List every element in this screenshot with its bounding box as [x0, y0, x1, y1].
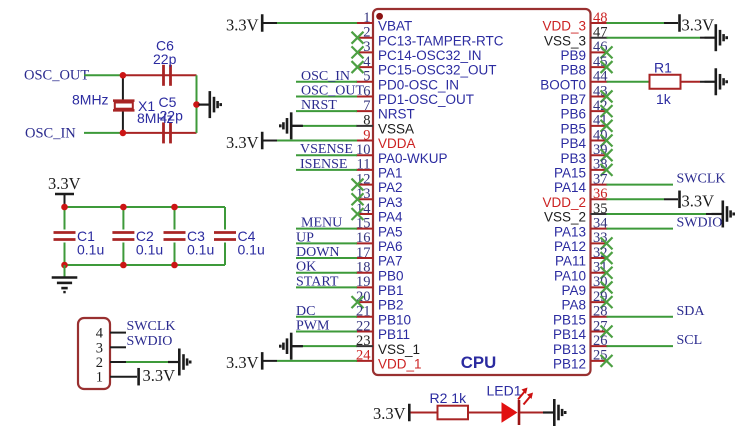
svg-text:1k: 1k	[656, 91, 672, 107]
wire pin 21 net DC	[296, 316, 357, 318]
wire R2 to LED1	[468, 412, 502, 414]
svg-text:VDD_1: VDD_1	[378, 356, 422, 371]
svg-text:22p: 22p	[153, 51, 177, 67]
pin 7 NRST (left)	[356, 98, 415, 122]
pin 20 PB2 (left)	[356, 289, 404, 313]
no-connect pin 43	[601, 90, 613, 102]
svg-text:NRST: NRST	[378, 107, 415, 122]
svg-text:3: 3	[96, 340, 103, 356]
pin 22 PB11 (left)	[356, 318, 410, 342]
svg-text:3.3V: 3.3V	[682, 192, 715, 211]
svg-text:PB12: PB12	[553, 356, 586, 371]
svg-text:PB10: PB10	[378, 312, 411, 327]
pin 30 PA9 (right)	[561, 274, 607, 298]
svg-text:19: 19	[356, 274, 371, 290]
CPU U1 body	[373, 9, 591, 375]
power 3.3V (LED)	[373, 404, 409, 423]
svg-text:11: 11	[357, 157, 371, 173]
junction crystal top	[120, 72, 127, 79]
pin 28 PB15 (right)	[553, 304, 608, 328]
pin 6 PD1-OSC_OUT (left)	[356, 83, 474, 107]
svg-text:24: 24	[356, 348, 371, 364]
svg-text:PA3: PA3	[378, 195, 403, 210]
pin 38 PA15 (right)	[554, 157, 608, 181]
svg-text:4: 4	[96, 326, 104, 342]
svg-text:DOWN: DOWN	[296, 245, 340, 260]
svg-text:PC15-OSC32_OUT: PC15-OSC32_OUT	[378, 63, 497, 78]
wire pin 19 net START	[296, 286, 357, 288]
wire pin 36 to 3.3V	[607, 198, 679, 200]
svg-text:1: 1	[363, 10, 370, 26]
wire cap bank top rail	[65, 206, 226, 208]
svg-text:VDDA: VDDA	[378, 136, 416, 151]
pin 1 marker dot	[376, 13, 383, 20]
wire cap bank bottom rail	[65, 264, 226, 266]
pin 17 PA7 (left)	[356, 245, 403, 269]
wire pin 16 net UP	[296, 242, 357, 244]
svg-text:PWM: PWM	[296, 318, 330, 333]
wire pin 26 net SCL	[607, 345, 674, 347]
wire OSC_IN	[84, 132, 123, 134]
svg-text:PD0-OSC_IN: PD0-OSC_IN	[378, 77, 459, 92]
svg-text:SWCLK: SWCLK	[127, 319, 176, 334]
wire pin 18 net OK	[296, 272, 357, 274]
svg-text:PA9: PA9	[561, 283, 586, 298]
pin 21 PB10 (left)	[356, 304, 411, 328]
svg-text:26: 26	[593, 333, 608, 349]
wire pin 11 net ISENSE	[296, 169, 357, 171]
svg-text:VDD_3: VDD_3	[542, 19, 586, 34]
pin 5 PD0-OSC_IN (left)	[356, 69, 459, 93]
svg-text:START: START	[296, 274, 339, 289]
wire 3.3V to R2	[411, 412, 438, 414]
wire pin 23 to GND	[292, 345, 357, 347]
no-connect pin 12	[352, 179, 364, 191]
svg-text:2: 2	[363, 24, 370, 40]
capacitor C4	[214, 207, 265, 265]
ground (pin 23)	[280, 333, 302, 360]
ground (R1)	[705, 68, 727, 95]
svg-text:PC13-TAMPER-RTC: PC13-TAMPER-RTC	[378, 33, 504, 48]
wire pin 37 net SWCLK	[607, 184, 674, 186]
svg-text:VSENSE: VSENSE	[300, 142, 353, 157]
junction bottom C1	[61, 262, 68, 269]
svg-text:SDA: SDA	[677, 304, 706, 319]
connector pin 1	[96, 370, 137, 386]
svg-text:16: 16	[356, 230, 371, 246]
no-connect pin 27	[601, 325, 613, 337]
pin 9 VDDA (left)	[356, 127, 416, 151]
svg-text:PB11: PB11	[378, 327, 410, 342]
junction right rail	[193, 101, 200, 108]
LED D1	[487, 383, 522, 426]
svg-text:3.3V: 3.3V	[226, 15, 259, 34]
svg-text:VSS_1: VSS_1	[378, 342, 420, 357]
pin 29 PA8 (right)	[561, 289, 607, 313]
svg-text:VDD_2: VDD_2	[542, 195, 586, 210]
ground (pin 47)	[705, 24, 727, 51]
no-connect pin 31	[601, 267, 613, 279]
svg-text:22: 22	[356, 318, 371, 334]
pin 46 PB9 (right)	[560, 39, 607, 63]
svg-text:R1: R1	[654, 59, 672, 75]
capacitor C5	[159, 94, 184, 143]
pin 8 VSSA (left)	[356, 113, 414, 137]
ground (connector)	[168, 349, 190, 376]
svg-text:BOOT0: BOOT0	[540, 77, 586, 92]
svg-text:18: 18	[356, 260, 371, 276]
pin 27 PB14 (right)	[553, 318, 608, 342]
pin 45 PB8 (right)	[560, 54, 607, 78]
svg-text:PC14-OSC32_IN: PC14-OSC32_IN	[378, 48, 482, 63]
no-connect pin 33	[601, 237, 613, 249]
pin 43 PB7 (right)	[560, 83, 607, 107]
svg-text:PB7: PB7	[560, 92, 586, 107]
power 3.3V (pin 1)	[226, 14, 262, 34]
svg-text:PA2: PA2	[378, 180, 403, 195]
pin 13 PA3 (left)	[356, 186, 403, 210]
svg-text:44: 44	[593, 69, 608, 85]
svg-text:3.3V: 3.3V	[682, 15, 715, 34]
svg-text:3: 3	[363, 39, 370, 55]
svg-text:0.1u: 0.1u	[136, 242, 163, 258]
svg-text:VBAT: VBAT	[378, 19, 412, 34]
junction bottom C2	[120, 262, 127, 269]
svg-text:OSC_IN: OSC_IN	[301, 69, 350, 84]
pin 44 BOOT0 (right)	[540, 69, 608, 93]
svg-text:PB0: PB0	[378, 268, 404, 283]
pin 39 PB3 (right)	[560, 142, 607, 166]
svg-text:28: 28	[593, 304, 608, 320]
no-connect pin 3	[352, 46, 364, 58]
svg-text:DC: DC	[296, 304, 315, 319]
svg-text:PB6: PB6	[560, 107, 586, 122]
svg-text:9: 9	[363, 127, 370, 143]
no-connect pin 42	[601, 105, 613, 117]
wire pin 1 to 3.3V	[264, 22, 358, 24]
resistor R2	[430, 390, 469, 419]
crystal X1	[72, 75, 174, 133]
no-connect pin 32	[601, 252, 613, 264]
junction crystal bottom	[120, 130, 127, 137]
pin 2 PC13-TAMPER-RTC (left)	[356, 24, 504, 48]
wire pin 7 net NRST	[296, 110, 357, 112]
svg-text:1: 1	[96, 370, 103, 386]
no-connect pin 29	[601, 296, 613, 308]
pin 15 PA5 (left)	[356, 215, 403, 239]
wire pin 15 net MENU	[296, 228, 357, 230]
junction top C2	[120, 204, 127, 211]
svg-text:3.3V: 3.3V	[373, 404, 406, 423]
svg-text:8MHz: 8MHz	[72, 92, 109, 108]
no-connect pin 38	[601, 164, 613, 176]
svg-text:PA4: PA4	[378, 210, 403, 225]
pin 19 PB1 (left)	[356, 274, 404, 298]
svg-text:4: 4	[363, 54, 371, 70]
wire pin 10 net VSENSE	[296, 154, 357, 156]
svg-text:PA5: PA5	[378, 224, 403, 239]
svg-text:SCL: SCL	[677, 333, 703, 348]
ground (pin 35)	[712, 200, 734, 227]
wire pin 34 net SWDIO	[607, 228, 674, 230]
svg-text:7: 7	[363, 98, 370, 114]
svg-text:PB13: PB13	[553, 342, 586, 357]
pin 25 PB12 (right)	[553, 348, 608, 372]
svg-text:VSS_2: VSS_2	[544, 210, 586, 225]
power 3.3V (pin 24)	[226, 352, 262, 372]
svg-text:23: 23	[356, 333, 371, 349]
svg-text:R2 1k: R2 1k	[430, 390, 468, 406]
svg-text:15: 15	[356, 215, 371, 231]
svg-text:OSC_OUT: OSC_OUT	[24, 68, 89, 84]
power 3.3V (pin 9)	[226, 132, 262, 152]
wire pin 17 net DOWN	[296, 257, 357, 259]
svg-text:PA1: PA1	[378, 166, 403, 181]
ground (LED)	[543, 399, 565, 426]
pin 37 PA14 (right)	[554, 171, 608, 195]
svg-text:OSC_IN: OSC_IN	[25, 126, 76, 142]
svg-text:PA11: PA11	[555, 254, 586, 269]
pin 42 PB6 (right)	[560, 98, 607, 122]
pin 32 PA11 (right)	[555, 245, 608, 269]
capacitor C6	[153, 38, 177, 86]
pin 14 PA4 (left)	[356, 201, 403, 225]
svg-text:MENU: MENU	[301, 216, 342, 231]
wire R1 to GND	[681, 81, 705, 83]
svg-text:0.1u: 0.1u	[187, 242, 214, 258]
svg-text:5: 5	[363, 69, 370, 85]
svg-text:PB3: PB3	[560, 151, 586, 166]
svg-text:PB2: PB2	[378, 298, 404, 313]
svg-text:47: 47	[593, 24, 608, 40]
connector pin 2	[96, 355, 126, 371]
svg-text:37: 37	[593, 171, 608, 187]
pin 40 PB4 (right)	[560, 127, 607, 151]
wire pin 28 net SDA	[607, 316, 674, 318]
power 3.3V (pin 36)	[680, 191, 715, 211]
svg-text:3.3V: 3.3V	[143, 366, 176, 385]
pin 48 VDD_3 (right)	[542, 10, 607, 34]
no-connect pin 14	[352, 208, 364, 220]
svg-text:PB8: PB8	[560, 63, 586, 78]
svg-text:36: 36	[593, 186, 608, 202]
wire pin 24 to 3.3V	[264, 360, 358, 362]
pin 35 VSS_2 (right)	[544, 201, 608, 225]
svg-text:3.3V: 3.3V	[226, 353, 259, 372]
svg-text:PB14: PB14	[553, 327, 587, 342]
svg-text:OSC_OUT: OSC_OUT	[301, 83, 364, 98]
svg-text:8MHz: 8MHz	[137, 110, 174, 126]
wire pin 2 to GND	[126, 361, 168, 363]
wire pin 44 BOOT0 to R1	[607, 81, 650, 83]
svg-text:PA15: PA15	[554, 166, 586, 181]
svg-text:PB5: PB5	[560, 121, 586, 136]
svg-text:17: 17	[356, 245, 371, 261]
svg-text:0.1u: 0.1u	[238, 242, 265, 258]
pin 31 PA10 (right)	[554, 260, 608, 284]
junction top C1	[61, 204, 68, 211]
svg-text:SWDIO: SWDIO	[127, 334, 173, 349]
no-connect pin 41	[601, 120, 613, 132]
wire pin 48 to 3.3V	[607, 22, 679, 24]
svg-text:PD1-OSC_OUT: PD1-OSC_OUT	[378, 92, 474, 107]
resistor R1	[650, 59, 681, 107]
LED arrows	[518, 388, 533, 405]
wire to earth ground	[64, 265, 66, 278]
no-connect pin 13	[352, 193, 364, 205]
power 3.3V (connector)	[139, 366, 176, 385]
svg-text:3.3V: 3.3V	[226, 133, 259, 152]
svg-text:LED1: LED1	[487, 383, 522, 399]
svg-text:10: 10	[356, 142, 371, 158]
wire OSC_OUT	[84, 74, 123, 76]
pin 36 VDD_2 (right)	[542, 186, 607, 210]
svg-text:OK: OK	[296, 260, 316, 275]
wire LED1 to GND	[520, 412, 543, 414]
svg-text:PB1: PB1	[378, 283, 404, 298]
connector pin 3	[96, 340, 126, 356]
svg-text:SWCLK: SWCLK	[677, 172, 726, 187]
svg-text:VSSA: VSSA	[378, 121, 414, 136]
connector pin 4	[96, 326, 126, 342]
svg-text:34: 34	[593, 215, 608, 231]
svg-text:PA0-WKUP: PA0-WKUP	[378, 151, 448, 166]
svg-text:NRST: NRST	[301, 98, 337, 113]
wire top to C6	[123, 74, 197, 76]
wire pin 9 to 3.3V	[264, 140, 358, 142]
svg-text:35: 35	[593, 201, 608, 217]
svg-text:3.3V: 3.3V	[48, 174, 81, 193]
svg-text:PB15: PB15	[553, 312, 586, 327]
no-connect pin 2	[352, 32, 364, 44]
earth ground (cap bank)	[52, 278, 78, 293]
junction bottom C3	[171, 262, 178, 269]
svg-text:PA6: PA6	[378, 239, 403, 254]
connector J1 body	[78, 318, 110, 389]
svg-text:PA7: PA7	[378, 254, 403, 269]
wire right rail	[196, 75, 198, 133]
pin 41 PB5 (right)	[560, 113, 607, 137]
svg-text:CPU: CPU	[461, 353, 496, 372]
no-connect pin 45	[601, 61, 613, 73]
pin 11 PA1 (left)	[356, 157, 403, 181]
svg-text:SWDIO: SWDIO	[677, 216, 723, 231]
svg-text:UP: UP	[296, 230, 314, 245]
svg-text:8: 8	[363, 113, 370, 129]
pin 16 PA6 (left)	[356, 230, 403, 254]
power 3.3V (cap bank)	[48, 174, 81, 207]
pin 33 PA12 (right)	[554, 230, 608, 254]
pin 47 VSS_3 (right)	[544, 24, 608, 48]
svg-text:PB9: PB9	[560, 48, 586, 63]
no-connect pin 39	[601, 149, 613, 161]
svg-text:PA12: PA12	[554, 239, 586, 254]
ground (pin 8)	[280, 112, 302, 139]
no-connect pin 4	[352, 61, 364, 73]
svg-text:48: 48	[593, 10, 608, 26]
svg-text:PB4: PB4	[560, 136, 586, 151]
svg-text:VSS_3: VSS_3	[544, 33, 586, 48]
pin 26 PB13 (right)	[553, 333, 608, 357]
capacitor C3	[164, 207, 215, 265]
svg-text:PA10: PA10	[554, 268, 586, 283]
pin 1 VBAT (left)	[356, 10, 412, 34]
ground (crystal)	[199, 91, 221, 118]
wire pin 5 net OSC_IN	[296, 81, 357, 83]
svg-text:PA14: PA14	[554, 180, 587, 195]
svg-text:ISENSE: ISENSE	[300, 157, 347, 172]
svg-text:21: 21	[356, 304, 371, 320]
capacitor C1	[54, 207, 105, 265]
power 3.3V (pin 48)	[680, 14, 715, 34]
pin 3 PC14-OSC32_IN (left)	[356, 39, 482, 63]
wire pin 6 net OSC_OUT	[296, 95, 357, 97]
pin 10 PA0-WKUP (left)	[356, 142, 448, 166]
pin 4 PC15-OSC32_OUT (left)	[356, 54, 497, 78]
no-connect pin 46	[601, 46, 613, 58]
pin 24 VDD_1 (left)	[356, 348, 422, 372]
svg-text:PA8: PA8	[561, 298, 586, 313]
svg-text:PA13: PA13	[554, 224, 586, 239]
svg-text:2: 2	[96, 355, 103, 371]
pin 12 PA2 (left)	[356, 171, 403, 195]
no-connect pin 40	[601, 135, 613, 147]
wire bottom to C5	[123, 132, 197, 134]
no-connect pin 30	[601, 281, 613, 293]
svg-text:0.1u: 0.1u	[77, 242, 104, 258]
wire pin 22 net PWM	[296, 330, 357, 332]
no-connect pin 20	[352, 296, 364, 308]
pin 23 VSS_1 (left)	[356, 333, 420, 357]
wire pin 47 to GND	[607, 37, 705, 39]
wire pin 8 to GND	[292, 125, 357, 127]
svg-text:6: 6	[363, 83, 370, 99]
junction top C3	[171, 204, 178, 211]
pin 18 PB0 (left)	[356, 260, 404, 284]
wire pin 35 to GND	[607, 213, 712, 215]
pin 34 PA13 (right)	[554, 215, 608, 239]
no-connect pin 25	[601, 355, 613, 367]
capacitor C2	[112, 207, 163, 265]
